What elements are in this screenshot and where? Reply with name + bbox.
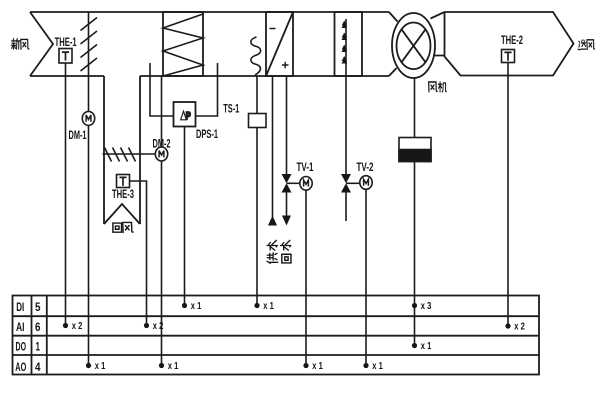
svg-text:1: 1 (35, 340, 40, 354)
svg-text:TV-2: TV-2 (357, 160, 374, 174)
node THE-3 AI x2 (144, 321, 164, 332)
node DM-2 AO x1 (159, 361, 179, 372)
wire DM-2 to AO row (161, 76, 163, 366)
svg-text:x 1: x 1 (95, 361, 106, 372)
svg-text:THE-2: THE-2 (501, 33, 523, 47)
label 新风 (fresh air) (12, 39, 29, 50)
svg-text:P: P (186, 110, 191, 122)
label 风机 (fan) (429, 82, 447, 92)
label DM-2 (153, 136, 171, 150)
svg-text:TV-1: TV-1 (297, 160, 314, 174)
node TS-1 DI x1 (254, 301, 274, 312)
return duct bottom chevron opening (104, 204, 140, 224)
humidifier box (335, 12, 363, 76)
svg-text:x 2: x 2 (514, 322, 525, 333)
node TV-2 AO x1 (363, 361, 383, 372)
label THE-3 (112, 187, 134, 201)
node fan DO x1 (412, 341, 432, 352)
wire TV-2 to AO row (365, 189, 367, 365)
svg-text:x 1: x 1 (191, 301, 202, 312)
return water arrow (down) (282, 216, 291, 226)
node fan DI x3 (412, 301, 432, 312)
wire TS-1 to DI row (256, 76, 258, 306)
heating coil wavy element (251, 37, 261, 75)
main duct left end notch (fresh air inlet) (30, 12, 53, 76)
DPS-1 pressure taps (150, 63, 218, 116)
label TS-1 (223, 101, 239, 115)
sensor TS-1 box (249, 114, 267, 128)
filter F1 box (163, 12, 203, 76)
node THE-1 AI x2 (63, 321, 83, 332)
return damper blade line (103, 153, 156, 155)
row label AI 6 (16, 320, 41, 334)
sensor THE-3 T box (117, 175, 130, 188)
sensor THE-1 T box (59, 49, 72, 64)
damper D1 vertical blade line (88, 12, 90, 77)
label 回风 (return air) (113, 222, 133, 232)
node DM-1 AO x1 (86, 361, 106, 372)
supply water pipe (272, 76, 274, 217)
points table column lines (32, 296, 47, 375)
steam valve pipe TV-2 (345, 76, 347, 221)
supply duct with right arrow end (445, 12, 574, 76)
fan U1 inner impeller ellipse with X (397, 23, 431, 70)
valve TV-1 motor (287, 177, 313, 191)
svg-text:x 1: x 1 (421, 341, 432, 352)
return duct walls (104, 76, 140, 224)
svg-text:AO: AO (15, 360, 26, 374)
svg-text:AI: AI (16, 320, 25, 334)
return water pipe (286, 76, 288, 217)
label DM-1 (69, 128, 87, 142)
svg-text:TS-1: TS-1 (223, 101, 239, 115)
svg-text:DI: DI (16, 300, 24, 314)
svg-text:x 1: x 1 (372, 361, 383, 372)
humidifier steam pipe with spray marks (341, 19, 347, 76)
row label AO 4 (15, 360, 40, 374)
points table frame (13, 296, 540, 375)
valve TV-2 body (341, 174, 351, 193)
svg-text:DO: DO (16, 340, 27, 354)
flow switch box (half filled) (399, 138, 431, 162)
svg-text:4: 4 (35, 360, 41, 374)
actuator DM-1 motor circle (82, 111, 94, 125)
wire DPS-1 to DI row (184, 127, 186, 306)
label 送风 (supply air) (578, 40, 595, 50)
filter F1 zigzag (163, 14, 203, 76)
damper D1 hatch strokes (81, 18, 98, 72)
label TV-2 (357, 160, 374, 174)
points table row lines (13, 316, 540, 355)
label DPS-1 (196, 127, 218, 141)
node DPS-1 DI x1 (182, 301, 202, 312)
actuator DM-2 motor circle (155, 147, 167, 161)
label TV-1 (297, 160, 314, 174)
supply water arrow (up) (268, 216, 277, 226)
sensor DPS-1 delta-P box (174, 102, 196, 127)
cooling coil box with diagonal (266, 12, 293, 76)
main duct right end chamfers at fan (389, 12, 398, 76)
main duct bottom wall (30, 75, 389, 77)
label THE-1 (55, 35, 77, 49)
main duct top wall (30, 11, 389, 13)
svg-text:x 2: x 2 (72, 321, 83, 332)
valve TV-1 body (282, 174, 292, 193)
return damper hatch strokes (105, 148, 136, 162)
wire THE-3 to AI row (130, 181, 147, 326)
label 回水 (return water) (281, 240, 291, 263)
svg-text:6: 6 (35, 320, 41, 334)
svg-text:THE-3: THE-3 (112, 187, 134, 201)
row label DO 1 (16, 340, 41, 354)
fan outlet connection to supply duct (431, 12, 445, 56)
wire THE-2 to AI row (507, 63, 509, 327)
wire DM-1 to AO row (88, 77, 90, 366)
svg-text:5: 5 (35, 300, 41, 314)
svg-text:x 1: x 1 (312, 361, 323, 372)
row label DI 5 (16, 300, 41, 314)
label THE-2 (501, 33, 523, 47)
valve TV-2 motor (346, 176, 372, 190)
svg-text:x 1: x 1 (168, 361, 179, 372)
svg-text:x 3: x 3 (421, 301, 432, 312)
wire TV-1 to AO row (305, 190, 307, 365)
fan U1 outer scroll (392, 13, 435, 78)
svg-text:x 1: x 1 (263, 301, 274, 312)
svg-text:DPS-1: DPS-1 (196, 127, 218, 141)
label 供水 (supply water) (267, 240, 278, 263)
node TV-1 AO x1 (303, 361, 323, 372)
wire THE-1 to AI row (65, 63, 67, 326)
sensor THE-2 T box (502, 50, 515, 63)
wire fan to DO row (414, 77, 416, 345)
node THE-2 AI x2 (505, 322, 525, 333)
svg-text:DM-1: DM-1 (69, 128, 87, 142)
svg-text:THE-1: THE-1 (55, 35, 77, 49)
svg-text:x 2: x 2 (153, 321, 164, 332)
